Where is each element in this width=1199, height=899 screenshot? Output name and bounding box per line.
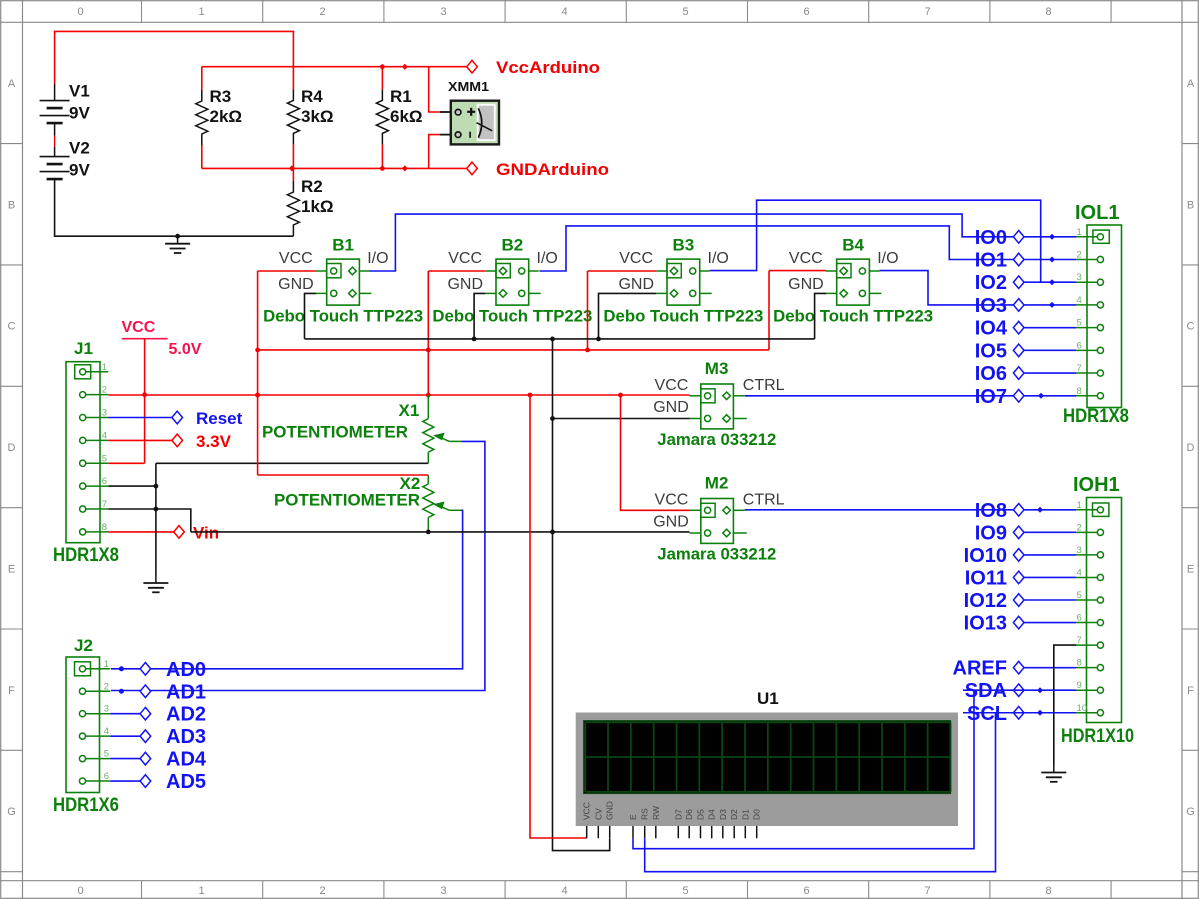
svg-text:6: 6 — [803, 885, 809, 897]
svg-text:IO9: IO9 — [975, 522, 1007, 544]
svg-text:R1: R1 — [390, 87, 412, 106]
svg-text:X1: X1 — [399, 401, 420, 420]
wire VCC bus to sensors — [258, 349, 769, 351]
wire gnd bus X2 row — [191, 531, 690, 533]
svg-text:M3: M3 — [705, 359, 729, 378]
svg-text:VCC: VCC — [655, 377, 689, 394]
resistor R1 — [381, 67, 383, 90]
svg-text:B3: B3 — [673, 236, 695, 255]
wire B3 VCC — [587, 271, 589, 350]
svg-text:IOL1: IOL1 — [1075, 202, 1119, 224]
connector J2 — [66, 657, 100, 793]
svg-text:1kΩ: 1kΩ — [301, 197, 334, 216]
svg-text:Vin: Vin — [193, 523, 219, 542]
svg-text:VCC: VCC — [279, 250, 313, 267]
svg-text:HDR1X8: HDR1X8 — [53, 545, 119, 566]
wire J1 pin6 to ground — [108, 485, 156, 487]
svg-text:3.3V: 3.3V — [196, 432, 232, 451]
svg-text:A: A — [8, 78, 16, 90]
svg-text:M2: M2 — [705, 474, 729, 493]
potentiometer X2 — [427, 475, 429, 484]
svg-text:1: 1 — [104, 659, 109, 670]
svg-text:J2: J2 — [74, 636, 93, 655]
svg-text:6: 6 — [104, 771, 109, 782]
svg-text:2: 2 — [104, 681, 109, 692]
svg-text:Debo Touch TTP223: Debo Touch TTP223 — [603, 307, 763, 326]
svg-text:5: 5 — [1077, 318, 1082, 329]
svg-text:U1: U1 — [757, 689, 779, 708]
svg-text:VCC: VCC — [619, 250, 653, 267]
svg-text:VccArduino: VccArduino — [496, 58, 600, 77]
svg-text:B: B — [8, 199, 15, 211]
wire V1- to V2+ — [54, 136, 56, 147]
resistor R4 — [287, 89, 299, 144]
svg-text:4: 4 — [1077, 567, 1082, 578]
svg-text:3kΩ: 3kΩ — [301, 107, 334, 126]
svg-text:Jamara 033212: Jamara 033212 — [657, 545, 776, 564]
svg-text:9V: 9V — [69, 104, 90, 123]
svg-text:IO1: IO1 — [975, 250, 1007, 272]
svg-text:B2: B2 — [502, 236, 524, 255]
svg-text:CTRL: CTRL — [743, 377, 785, 394]
svg-text:E: E — [8, 563, 15, 575]
svg-text:VCC: VCC — [582, 802, 592, 820]
touch sensor B2 — [496, 259, 529, 305]
node AD0 — [140, 663, 151, 676]
svg-text:8: 8 — [1077, 658, 1082, 669]
svg-text:I/O: I/O — [537, 250, 558, 267]
svg-text:C: C — [1187, 321, 1195, 333]
node 3.3V — [108, 439, 172, 441]
svg-text:IO13: IO13 — [964, 613, 1007, 635]
svg-text:I/O: I/O — [708, 250, 729, 267]
node SCL — [1013, 706, 1024, 719]
svg-text:D6: D6 — [684, 809, 694, 820]
wire AD0 to X2 wiper — [111, 510, 463, 669]
touch sensor B3 — [667, 259, 700, 305]
svg-text:2: 2 — [102, 385, 107, 396]
svg-text:AD5: AD5 — [166, 771, 206, 793]
node AD5 — [110, 780, 140, 782]
node IO5 — [1014, 349, 1076, 351]
svg-text:D1: D1 — [740, 809, 750, 820]
wire B1 VCC vertical — [257, 271, 259, 475]
svg-text:1: 1 — [1077, 227, 1082, 238]
svg-text:3: 3 — [1077, 272, 1082, 283]
svg-text:GND: GND — [618, 276, 654, 293]
battery V2 — [54, 147, 56, 157]
svg-text:HDR1X8: HDR1X8 — [1063, 406, 1129, 427]
svg-text:V2: V2 — [69, 139, 90, 158]
motor M3 — [701, 384, 734, 429]
svg-text:D5: D5 — [696, 809, 706, 820]
svg-text:D2: D2 — [729, 809, 739, 820]
svg-text:D: D — [8, 442, 16, 454]
svg-text:J1: J1 — [74, 339, 93, 358]
connector IOH1 — [1076, 509, 1100, 511]
node IO0 — [1013, 231, 1024, 244]
wire gnd vertical — [155, 463, 157, 575]
svg-text:Reset: Reset — [196, 409, 243, 428]
wire 5V rail — [108, 394, 689, 396]
svg-text:GND: GND — [605, 801, 615, 820]
svg-text:GND: GND — [447, 276, 483, 293]
node AD1 — [140, 685, 151, 698]
wire SCL row — [963, 712, 1076, 714]
node AD2 — [110, 713, 140, 715]
svg-text:D0: D0 — [752, 809, 762, 820]
svg-text:4: 4 — [1077, 295, 1082, 306]
battery V1 — [54, 84, 56, 101]
svg-text:AD0: AD0 — [166, 659, 206, 681]
svg-text:R2: R2 — [301, 177, 323, 196]
touch sensor B4 — [837, 259, 870, 305]
node IO4 — [1014, 327, 1076, 329]
svg-text:IO10: IO10 — [964, 545, 1007, 567]
node IO2 — [1013, 276, 1024, 289]
svg-text:POTENTIOMETER: POTENTIOMETER — [274, 491, 420, 510]
svg-text:AD2: AD2 — [166, 704, 206, 726]
svg-text:7: 7 — [924, 885, 930, 897]
svg-text:IO12: IO12 — [964, 590, 1007, 612]
svg-text:I/O: I/O — [367, 250, 388, 267]
wire VCC to M2 — [621, 395, 690, 510]
svg-text:1: 1 — [198, 6, 204, 18]
svg-text:IO8: IO8 — [975, 500, 1007, 522]
svg-text:RW: RW — [651, 806, 661, 820]
svg-text:8: 8 — [102, 522, 107, 533]
svg-text:GNDArduino: GNDArduino — [496, 160, 609, 179]
node IO3 — [1013, 299, 1024, 312]
node IO11 — [1014, 576, 1076, 578]
svg-text:IO6: IO6 — [975, 363, 1007, 385]
svg-text:Jamara 033212: Jamara 033212 — [657, 430, 776, 449]
node IO9 — [1014, 531, 1076, 533]
node Vin — [108, 531, 174, 533]
svg-text:10: 10 — [1077, 703, 1088, 714]
svg-text:D7: D7 — [673, 809, 683, 820]
motor M2 — [701, 499, 734, 544]
wire B2 IO1 — [539, 226, 1076, 271]
svg-text:5: 5 — [104, 749, 109, 760]
wire SDA row — [963, 689, 1076, 691]
svg-text:F: F — [8, 685, 15, 697]
touch sensor B1 — [327, 259, 360, 305]
wire X2 top feed — [258, 474, 429, 476]
node IO13 — [1014, 622, 1076, 624]
wire B1 GND — [305, 293, 317, 339]
node Reset — [108, 417, 172, 419]
wire LCD E to SDA — [633, 690, 974, 849]
svg-text:POTENTIOMETER: POTENTIOMETER — [262, 423, 408, 442]
svg-text:IO7: IO7 — [975, 386, 1007, 408]
svg-text:RS: RS — [640, 808, 650, 820]
multimeter XMM1 wires — [429, 67, 440, 112]
svg-text:SCL: SCL — [967, 703, 1007, 725]
svg-text:6kΩ: 6kΩ — [390, 107, 423, 126]
connector J1 — [66, 362, 100, 543]
svg-text:GND: GND — [653, 399, 689, 416]
wire GND bottom bus — [202, 167, 468, 169]
svg-text:2: 2 — [319, 885, 325, 897]
svg-text:7: 7 — [1077, 635, 1082, 646]
svg-text:GND: GND — [278, 276, 314, 293]
svg-text:3: 3 — [440, 885, 446, 897]
wire V1 top to bus — [55, 31, 294, 89]
svg-text:3: 3 — [1077, 545, 1082, 556]
svg-text:GND: GND — [653, 514, 689, 531]
node IO7 — [1013, 389, 1024, 402]
svg-text:IOH1: IOH1 — [1073, 474, 1120, 496]
node IO6 — [1014, 372, 1076, 374]
svg-text:SDA: SDA — [965, 680, 1007, 702]
wire GND bus of sensors — [305, 338, 815, 340]
wire gnd long vertical — [553, 339, 610, 851]
svg-text:CTRL: CTRL — [743, 492, 785, 509]
ground — [175, 234, 180, 239]
svg-text:8: 8 — [1045, 885, 1051, 897]
wire B1 IO0 — [369, 214, 1076, 271]
svg-text:HDR1X10: HDR1X10 — [1061, 726, 1134, 747]
wire B4 GND — [815, 293, 826, 339]
svg-text:R4: R4 — [301, 87, 323, 106]
svg-text:6: 6 — [803, 6, 809, 18]
svg-text:2: 2 — [319, 6, 325, 18]
svg-text:V1: V1 — [69, 82, 90, 101]
wire B4 IO3 — [879, 271, 1076, 305]
svg-text:2: 2 — [1077, 522, 1082, 533]
svg-text:B: B — [1187, 199, 1194, 211]
ground — [1053, 765, 1055, 773]
ground — [155, 576, 157, 584]
svg-text:VCC: VCC — [122, 319, 156, 336]
svg-text:AREF: AREF — [953, 658, 1007, 680]
node IO1 — [1013, 253, 1024, 266]
svg-text:6: 6 — [1077, 613, 1082, 624]
svg-text:Debo Touch TTP223: Debo Touch TTP223 — [773, 307, 933, 326]
svg-text:1: 1 — [1077, 500, 1082, 511]
svg-text:GND: GND — [788, 276, 824, 293]
svg-text:7: 7 — [102, 499, 107, 510]
svg-text:6: 6 — [102, 476, 107, 487]
wire VCC to J1 — [144, 339, 146, 464]
wire M3 GND — [553, 418, 690, 420]
svg-text:VCC: VCC — [655, 492, 689, 509]
connector IOL1 — [1076, 236, 1100, 238]
node SDA — [1013, 684, 1024, 697]
wire M2 CTRL IO8 — [745, 509, 1076, 511]
svg-text:4: 4 — [561, 885, 567, 897]
svg-text:G: G — [7, 806, 16, 818]
svg-text:AD4: AD4 — [166, 749, 207, 771]
svg-text:IO2: IO2 — [975, 272, 1007, 294]
svg-text:B1: B1 — [332, 236, 354, 255]
multimeter XMM1 — [451, 101, 499, 145]
node GNDArduino — [467, 162, 478, 175]
svg-text:7: 7 — [1077, 363, 1082, 374]
wire LCD RS to SCL — [645, 712, 996, 871]
wire V2- to ground bus — [55, 181, 294, 237]
svg-text:D4: D4 — [707, 809, 717, 820]
svg-text:E: E — [628, 814, 638, 820]
svg-text:F: F — [1187, 685, 1194, 697]
svg-text:E: E — [1187, 563, 1194, 575]
svg-text:0: 0 — [77, 6, 83, 18]
wire AD1 to X1 wiper — [111, 441, 485, 690]
wire IOH1 pin7 to ground — [1054, 645, 1076, 765]
node IO10 — [1014, 554, 1076, 556]
svg-text:7: 7 — [924, 6, 930, 18]
resistor R3 — [201, 67, 203, 90]
svg-text:4: 4 — [561, 6, 567, 18]
svg-text:5.0V: 5.0V — [169, 341, 202, 358]
wire B2 VCC — [427, 271, 429, 395]
svg-text:5: 5 — [102, 453, 107, 464]
svg-text:IO0: IO0 — [975, 227, 1007, 249]
svg-text:D3: D3 — [718, 809, 728, 820]
svg-text:R3: R3 — [210, 87, 232, 106]
svg-text:HDR1X6: HDR1X6 — [53, 795, 119, 816]
svg-text:B4: B4 — [842, 236, 864, 255]
node VccArduino — [467, 60, 478, 73]
svg-text:0: 0 — [77, 885, 83, 897]
svg-text:VCC: VCC — [448, 250, 482, 267]
svg-text:4: 4 — [104, 726, 109, 737]
svg-text:XMM1: XMM1 — [448, 79, 489, 94]
svg-text:1: 1 — [198, 885, 204, 897]
svg-text:IO3: IO3 — [975, 295, 1007, 317]
svg-text:CV: CV — [593, 808, 603, 820]
potentiometer X1 — [427, 395, 429, 419]
wire to X1 bottom — [156, 462, 428, 464]
svg-text:AD3: AD3 — [166, 726, 206, 748]
svg-text:IO4: IO4 — [975, 318, 1008, 340]
wire VCC to LCD — [530, 395, 587, 838]
svg-text:D: D — [1187, 442, 1195, 454]
svg-text:4: 4 — [102, 430, 107, 441]
resistor R2 — [292, 168, 294, 181]
node AD4 — [110, 758, 140, 760]
svg-text:9: 9 — [1077, 680, 1082, 691]
wire B3 GND — [599, 293, 657, 339]
svg-text:Debo Touch TTP223: Debo Touch TTP223 — [432, 307, 592, 326]
wire Vcc top bus — [202, 66, 468, 68]
node AD3 — [110, 735, 140, 737]
svg-text:IO5: IO5 — [975, 340, 1007, 362]
svg-text:3: 3 — [104, 704, 109, 715]
svg-text:1: 1 — [102, 362, 107, 373]
svg-text:2kΩ: 2kΩ — [210, 107, 243, 126]
svg-text:5: 5 — [682, 885, 688, 897]
svg-text:3: 3 — [440, 6, 446, 18]
svg-text:I/O: I/O — [877, 250, 898, 267]
svg-text:2: 2 — [1077, 250, 1082, 261]
wire IO2 row — [1014, 281, 1076, 283]
wire M3 CTRL IO7 — [745, 395, 1076, 397]
svg-text:5: 5 — [682, 6, 688, 18]
svg-text:A: A — [1187, 78, 1195, 90]
svg-text:Debo Touch TTP223: Debo Touch TTP223 — [263, 307, 423, 326]
wire B4 VCC — [768, 271, 770, 350]
svg-text:8: 8 — [1045, 6, 1051, 18]
wire B2 GND — [474, 293, 485, 339]
node IO8 — [1013, 504, 1024, 517]
wire J1 pin7 to gnd bus — [108, 509, 191, 532]
svg-text:IO11: IO11 — [965, 567, 1007, 589]
node IO12 — [1014, 599, 1076, 601]
svg-text:3: 3 — [102, 408, 107, 419]
node AREF — [1014, 667, 1076, 669]
svg-text:G: G — [1186, 806, 1195, 818]
svg-text:6: 6 — [1077, 340, 1082, 351]
svg-text:5: 5 — [1077, 590, 1082, 601]
svg-text:AD1: AD1 — [166, 681, 206, 703]
svg-text:8: 8 — [1077, 386, 1082, 397]
wire B3 IO2 — [710, 200, 1041, 282]
svg-text:9V: 9V — [69, 161, 90, 180]
svg-text:VCC: VCC — [789, 250, 823, 267]
junction dots on buses — [380, 64, 385, 69]
svg-text:C: C — [8, 321, 16, 333]
